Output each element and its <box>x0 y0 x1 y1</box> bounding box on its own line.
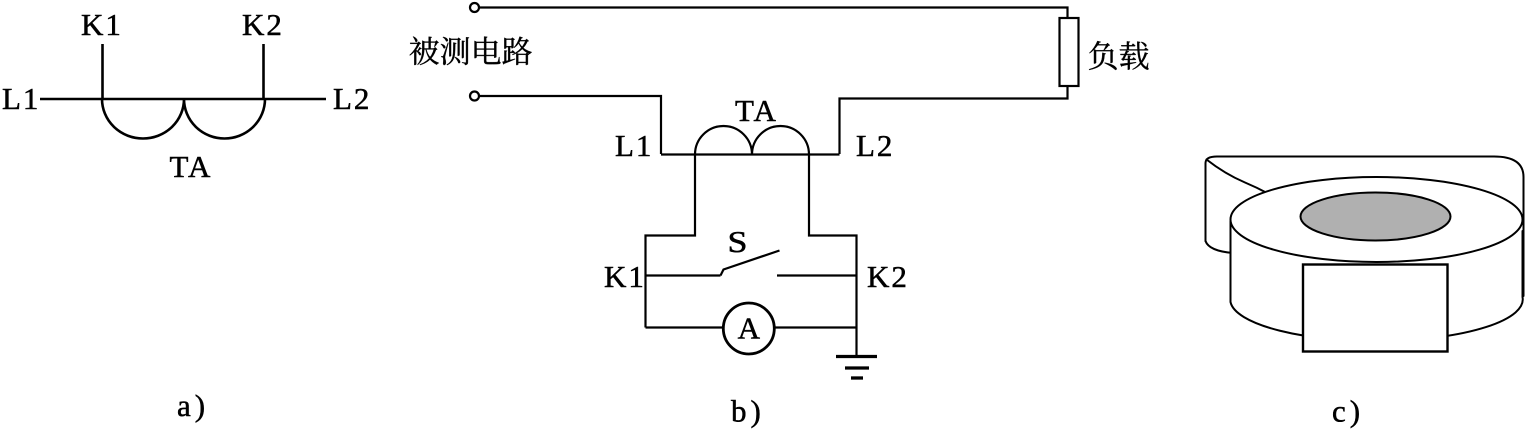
wire switch row left <box>646 274 721 276</box>
wire switch row right <box>777 274 857 276</box>
core back disc top face front rim curve <box>1207 160 1270 195</box>
svg-text:K2: K2 <box>867 259 909 294</box>
wire primary line L1-L2 (fig b) <box>661 153 840 155</box>
svg-text:b): b) <box>731 394 765 429</box>
inductor winding TA (two semicircles below line) <box>102 99 265 139</box>
core front cylinder body outline (sides and bottom arc) <box>1231 221 1523 341</box>
svg-text:K1: K1 <box>81 7 123 42</box>
label 负载 (load) <box>1089 41 1149 70</box>
svg-text:L2: L2 <box>333 81 371 116</box>
label 被测电路 (measured circuit) <box>410 37 532 66</box>
svg-text:c): c) <box>1332 394 1364 429</box>
wire top from terminal to load <box>479 8 1068 19</box>
wire ammeter row right <box>774 326 856 328</box>
wire lower terminal to L1 lead <box>479 96 661 154</box>
svg-text:TA: TA <box>170 149 213 184</box>
wire secondary right K2 <box>809 155 857 356</box>
inductor winding TA fig b (two semicircles above line) <box>695 126 809 155</box>
svg-text:L1: L1 <box>2 81 40 116</box>
wire K1 lead <box>101 44 104 99</box>
svg-text:L2: L2 <box>856 128 894 163</box>
svg-text:a): a) <box>177 388 209 423</box>
svg-text:K1: K1 <box>604 259 646 294</box>
svg-text:A: A <box>738 311 761 346</box>
svg-text:TA: TA <box>735 93 778 128</box>
terminal node lower (circle) <box>470 92 479 101</box>
core front cylinder top face (ellipse) <box>1231 177 1523 262</box>
svg-text:L1: L1 <box>615 128 653 163</box>
switch S blade <box>721 251 780 276</box>
svg-text:S: S <box>728 224 748 259</box>
core hole (gray ellipse) <box>1301 193 1451 241</box>
wire primary line L1-L2 <box>40 98 326 101</box>
terminal box rect <box>1303 265 1448 352</box>
terminal node upper (circle) <box>470 3 479 12</box>
wire from load bottom to L2 lead <box>840 86 1068 154</box>
ammeter A circle <box>723 303 774 354</box>
ground symbol <box>836 355 877 358</box>
wire secondary left K1 <box>646 155 696 328</box>
core back disc outline (left edge, top edge, right edge) <box>1206 157 1524 297</box>
core front cylinder body (fill) <box>1231 220 1523 342</box>
wire K2 lead <box>262 44 265 99</box>
core back disc (fill) <box>1206 157 1524 291</box>
resistor load (rect) <box>1060 18 1079 86</box>
wire ammeter row left <box>646 326 724 328</box>
svg-text:K2: K2 <box>242 7 284 42</box>
core back disc bottom-left rim arc <box>1206 241 1234 253</box>
